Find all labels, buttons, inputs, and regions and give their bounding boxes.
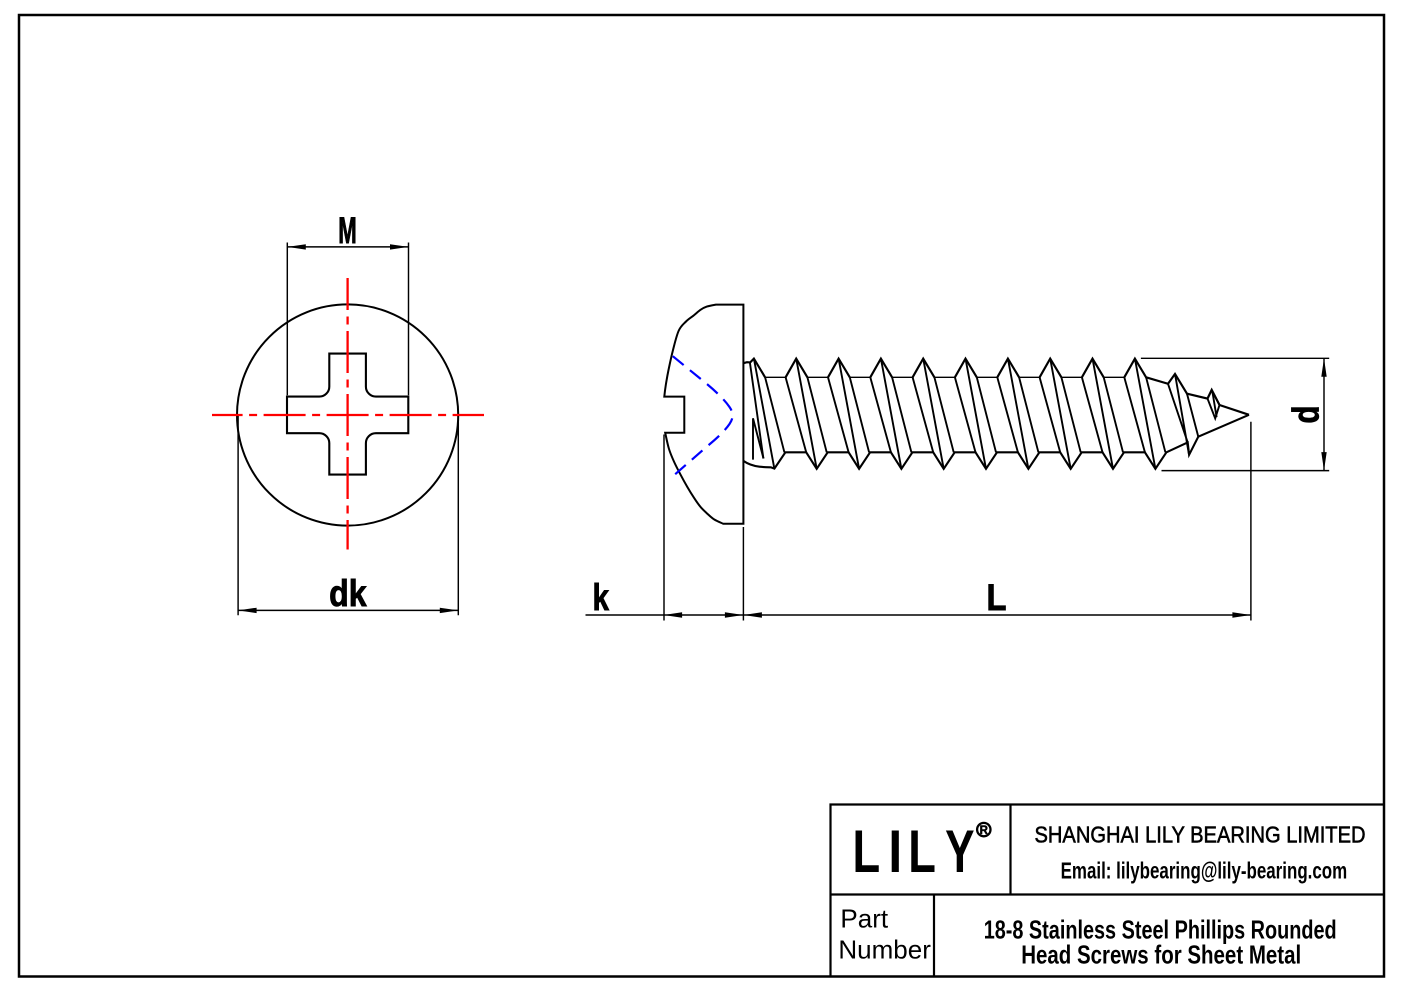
wire screw top profile thread crests <box>743 359 1249 415</box>
wire thread flank diagonals <box>750 359 1166 469</box>
title block divider part/description <box>933 895 935 977</box>
svg-text:L: L <box>908 819 936 886</box>
svg-text:Number: Number <box>838 935 931 965</box>
red horizontal centerline <box>212 414 484 416</box>
d dimension line <box>1323 358 1325 470</box>
M dimension extension lines <box>287 243 408 396</box>
L arrowheads <box>743 612 1251 617</box>
phillips recess cross <box>287 354 408 475</box>
dk dimension extension lines <box>238 416 458 615</box>
registered trademark symbol <box>977 823 990 836</box>
svg-text:Email: lilybearing@lily-bearin: Email: lilybearing@lily-bearing.com <box>1061 858 1348 884</box>
M dimension line <box>287 246 408 248</box>
k dimension extension lines <box>664 435 743 621</box>
L right extension line from tip <box>1250 422 1252 621</box>
title block row divider <box>831 893 1385 895</box>
title block divider LILY/company <box>1009 805 1011 895</box>
svg-text:Part: Part <box>840 903 888 933</box>
svg-text:Head Screws for Sheet Metal: Head Screws for Sheet Metal <box>1021 940 1301 970</box>
svg-text:R: R <box>980 825 989 837</box>
red vertical centerline <box>346 278 348 550</box>
dk dimension arrowheads <box>238 608 458 613</box>
d dimension extension lines <box>1141 358 1329 470</box>
blue hidden recess profile <box>673 356 733 474</box>
k arrowheads <box>664 612 744 617</box>
M dimension arrowheads <box>287 244 408 249</box>
wire top thread root line <box>765 376 1124 378</box>
svg-text:d: d <box>1284 406 1326 424</box>
L dimension line <box>743 614 1251 616</box>
title block outer box <box>831 805 1385 977</box>
wire taper point diagonals <box>1168 374 1217 454</box>
d arrowheads <box>1321 358 1326 470</box>
svg-text:L: L <box>987 576 1007 618</box>
screw head side outline (pan head dome) <box>664 305 743 524</box>
wire tip small diamond <box>1208 390 1220 419</box>
svg-text:M: M <box>338 209 357 251</box>
svg-text:dk: dk <box>329 572 367 614</box>
svg-text:Y: Y <box>945 818 974 885</box>
dk dimension line <box>238 609 458 611</box>
svg-text:L: L <box>852 819 880 886</box>
svg-text:I: I <box>888 817 902 885</box>
screw head circle (dk outline) <box>237 304 458 525</box>
k dimension leader and line <box>586 614 744 616</box>
svg-text:SHANGHAI LILY BEARING LIMITED: SHANGHAI LILY BEARING LIMITED <box>1035 821 1366 847</box>
wire thread runout sliver near head <box>753 418 764 459</box>
wire screw bottom profile with thread crests <box>743 415 1249 469</box>
svg-text:k: k <box>592 576 609 618</box>
